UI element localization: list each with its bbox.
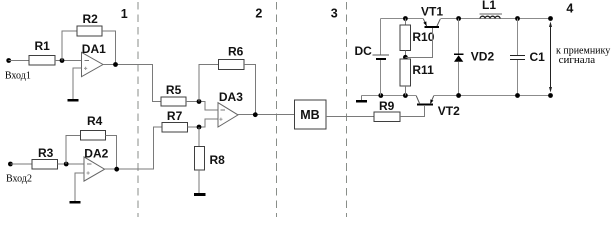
svg-text:R9: R9 <box>379 99 395 113</box>
svg-text:R11: R11 <box>412 63 434 77</box>
wire R8 bottom leg <box>198 170 200 193</box>
wire input2 to R3 <box>10 163 31 165</box>
svg-text:VD2: VD2 <box>471 50 495 64</box>
resistor R6 <box>219 60 245 70</box>
node R1/R2/DA1 junction <box>60 58 65 63</box>
node DA2 output <box>114 167 119 172</box>
wire DA2 noninverting input to ground <box>75 173 84 201</box>
svg-text:3: 3 <box>331 7 338 21</box>
svg-text:L1: L1 <box>482 0 496 12</box>
svg-text:VT1: VT1 <box>421 5 443 19</box>
wire R3 to DA2 inverting input <box>57 163 84 165</box>
wire VT1 base <box>405 28 432 58</box>
svg-text:DC: DC <box>355 44 373 58</box>
DA1 plus mark <box>84 67 87 70</box>
DA2 plus mark <box>87 171 90 174</box>
top supply rail left segment <box>381 18 424 20</box>
boundary dashed line 3 <box>346 2 348 217</box>
ground DA2 <box>70 201 81 204</box>
resistor R10 <box>404 19 406 26</box>
node ground rail / DC <box>378 93 383 98</box>
diode VD2 <box>458 19 460 55</box>
wire R6 left leg <box>199 65 219 102</box>
wire MB to R9 <box>326 116 374 118</box>
svg-text:R5: R5 <box>166 83 182 97</box>
svg-text:R10: R10 <box>412 30 434 44</box>
wire R4 left leg <box>66 136 80 165</box>
wire R2 left leg <box>62 31 77 61</box>
wire R9 to VT2 base <box>400 106 425 117</box>
svg-text:1: 1 <box>121 7 128 21</box>
svg-text:Вход2: Вход2 <box>6 173 32 184</box>
output dimension arrow <box>550 24 552 90</box>
resistor R5 <box>161 97 186 106</box>
resistor R11 <box>400 59 410 86</box>
svg-text:R4: R4 <box>87 114 103 128</box>
svg-text:DA2: DA2 <box>84 147 108 161</box>
svg-text:МВ: МВ <box>300 108 319 122</box>
svg-text:DA3: DA3 <box>219 90 243 104</box>
wire R4 right leg to DA2 output <box>106 136 117 170</box>
svg-text:VT2: VT2 <box>438 104 460 118</box>
wire DA2 output to R7 <box>105 127 162 169</box>
resistor R1 <box>29 56 55 66</box>
resistor R8 <box>194 147 204 171</box>
node R5/R6 junction <box>197 99 202 104</box>
DA3 minus mark <box>221 109 226 111</box>
ground rail section 4 <box>361 95 416 97</box>
node bottom rail / VD2 <box>456 93 461 98</box>
wire DA1 noninverting input to ground <box>73 68 82 99</box>
transistor VT2 <box>417 104 433 106</box>
svg-text:R8: R8 <box>210 153 226 167</box>
terminal top output <box>548 16 553 21</box>
svg-text:2: 2 <box>255 7 262 21</box>
wire R8 top leg <box>198 127 200 147</box>
input terminal Вход1 <box>6 58 11 63</box>
svg-text:сигнала: сигнала <box>559 54 596 66</box>
node top rail / C1 <box>515 16 520 21</box>
wire R11 bottom to ground rail <box>404 86 406 96</box>
ground DA1 <box>67 99 78 102</box>
op-amp DA1 <box>82 52 104 76</box>
node R3/R4/DA2 junction <box>64 162 69 167</box>
wire R1 to DA1 inverting input <box>55 60 82 62</box>
wire input1 to R1 <box>9 60 29 62</box>
wire R5 to DA3 inverting input <box>186 102 218 110</box>
boundary dashed line 2 <box>276 2 278 217</box>
node top rail / VD2 <box>456 16 461 21</box>
wire R6 right leg to DA3 output <box>244 65 255 115</box>
wire R7 to DA3 noninverting input <box>188 119 219 127</box>
bottom output rail <box>434 95 551 97</box>
svg-text:C1: C1 <box>530 50 546 64</box>
svg-text:R3: R3 <box>38 146 54 160</box>
resistor R4 <box>81 131 106 141</box>
node top rail / R10 <box>403 16 408 21</box>
resistor R9 <box>374 112 400 122</box>
DA2 minus mark <box>87 163 92 165</box>
capacitor C1 <box>517 19 519 56</box>
svg-text:DA1: DA1 <box>82 42 106 56</box>
op-amp DA2 <box>84 157 105 181</box>
ground symbol section 4 <box>360 96 362 101</box>
resistor R2 <box>77 26 102 36</box>
wire DA1 output to R5 <box>103 65 161 102</box>
node bottom rail / C1 <box>515 93 520 98</box>
wire DA3 output to MB <box>238 114 295 116</box>
resistor R7 <box>162 123 188 133</box>
svg-text:Вход1: Вход1 <box>5 70 31 81</box>
node DA3 output <box>253 112 258 117</box>
svg-text:R6: R6 <box>228 45 244 59</box>
DA3 plus mark <box>219 118 222 121</box>
top rail right segment <box>440 18 550 20</box>
DA1 minus mark <box>84 60 89 62</box>
svg-text:R1: R1 <box>35 39 51 53</box>
svg-text:R2: R2 <box>83 12 99 26</box>
wire R10 bottom to node <box>404 50 406 59</box>
terminal bottom output <box>548 93 553 98</box>
op-amp DA3 <box>218 103 238 127</box>
boundary dashed line 1 <box>137 2 139 217</box>
node R7/R8 junction <box>197 125 202 130</box>
svg-text:4: 4 <box>566 2 573 16</box>
node DA1 output <box>113 62 118 67</box>
wire R2 right leg to DA1 output <box>102 31 116 65</box>
node ground rail / R11 <box>403 93 408 98</box>
node R10/R11/VT1 base <box>403 55 408 60</box>
block MB <box>295 100 327 129</box>
input terminal Вход2 <box>8 162 13 167</box>
svg-text:R7: R7 <box>167 109 183 123</box>
resistor R3 <box>32 160 58 170</box>
ground R8 <box>194 193 205 196</box>
